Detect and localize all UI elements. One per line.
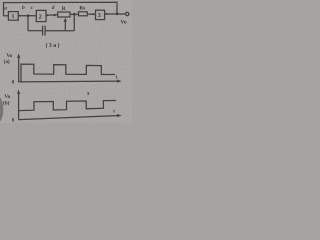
waveform Vo(a) x-axis arrowhead <box>117 80 121 83</box>
junction node at block3 output feedback tap <box>116 12 119 15</box>
wire: input into block 1 <box>4 15 9 17</box>
waveform Vo(b) vertical axis <box>18 92 20 120</box>
wire: R to node e <box>70 13 79 15</box>
block 1 <box>8 12 18 21</box>
potentiometer wiper arrow stem on R <box>64 20 66 31</box>
wire: node c drop to lower RC wire <box>27 16 29 31</box>
resistor Rs body <box>79 12 88 16</box>
scan grain overlay <box>0 0 132 123</box>
block 2 <box>36 10 46 21</box>
wire: Rs to block3 input <box>87 13 95 15</box>
paper background <box>0 0 132 123</box>
waveform Vo(b) y-axis arrowhead <box>17 89 20 94</box>
junction node c dot <box>27 14 30 17</box>
waveform Vo(b) square wave trace <box>19 101 116 111</box>
block3 output bubble <box>106 13 108 15</box>
capacitor C plate left <box>42 26 44 36</box>
block1 output bubble <box>18 15 20 17</box>
output terminal circle <box>126 12 129 15</box>
waveform Vo(a) square wave trace <box>21 64 115 82</box>
block 3 <box>96 10 105 19</box>
scan speck above waveform Vo(b) <box>87 92 89 95</box>
wire: node e drop to lower RC wire <box>73 14 75 31</box>
junction node e dot (R-Rs junction) <box>73 13 76 16</box>
waveform Vo(b) x-axis arrowhead <box>117 114 121 117</box>
junction node d dot <box>53 14 55 16</box>
block2 output bubble <box>46 14 48 16</box>
wire: block2 output to resistor R (node d) <box>46 14 58 16</box>
block3 input bubble <box>92 13 94 15</box>
wire: lower RC wire left segment to capacitor <box>28 30 42 32</box>
wire: lower RC wire right segment from capacitor <box>45 30 74 32</box>
potentiometer wiper arrowhead <box>64 18 67 22</box>
wire: block1 output to block2 input (node b to c) <box>18 15 36 17</box>
waveform Vo(a) horizontal time axis <box>19 80 120 83</box>
wire: block3 output to output terminal Vo <box>105 13 126 15</box>
waveform Vo(b) horizontal time axis <box>19 116 120 120</box>
wire: top feedback line <box>4 2 118 16</box>
waveform Vo(a) vertical axis <box>18 56 20 83</box>
capacitor C plate right <box>44 26 46 36</box>
scan artifact dark blob bottom-left corner <box>0 98 3 122</box>
waveform Vo(a) y-axis arrowhead <box>17 53 20 58</box>
resistor R body <box>58 12 70 17</box>
